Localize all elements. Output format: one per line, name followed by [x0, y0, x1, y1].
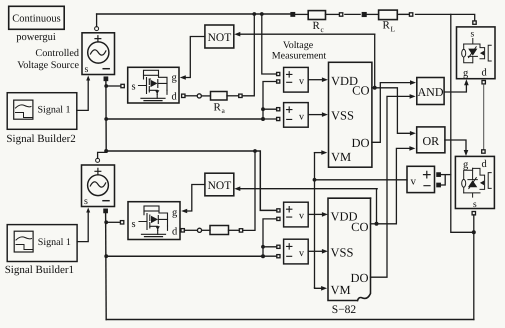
svg-text:v: v	[299, 112, 304, 123]
svg-text:v: v	[299, 211, 304, 222]
svg-text:Measurement: Measurement	[272, 51, 327, 62]
Q4 s port	[472, 212, 475, 215]
svg-text:Signal 1: Signal 1	[38, 237, 71, 248]
svg-text:d: d	[172, 227, 178, 238]
top rail wire	[97, 13, 291, 15]
voltage measurement V5 (mirrored)	[407, 166, 440, 192]
junction bus at lower bus branch	[104, 149, 108, 153]
svg-text:d: d	[172, 92, 178, 103]
MOSFET Q2 icon	[139, 206, 168, 237]
wire CO1 riser to NOT1	[374, 34, 376, 88]
controlled voltage source CVS1	[82, 33, 115, 75]
wire CVS1 minus bus down	[105, 81, 107, 152]
resistor Rc	[291, 11, 343, 20]
wire Q4 s down to node	[473, 215, 475, 232]
wire CO2 riser to NOT2	[376, 189, 379, 224]
svg-text:Signal Builder2: Signal Builder2	[6, 133, 75, 145]
wire VM1 input	[315, 152, 322, 154]
wire NOT1 input from CO1 loop	[240, 33, 375, 35]
svg-text:CO: CO	[351, 220, 368, 234]
NOT gate NOT1	[205, 25, 234, 48]
wire CO2 to OR input B	[377, 148, 410, 223]
Signal Builder2 block	[7, 93, 77, 130]
lower bus wire to NOT2 riser	[106, 151, 276, 210]
wire OR out to Q4 gate	[445, 140, 466, 151]
MOSFET Q4 block (bottom right)	[455, 156, 494, 210]
RL value label	[383, 20, 396, 34]
svg-text:s: s	[132, 219, 136, 230]
svg-text:VSS: VSS	[331, 246, 354, 260]
wire M3- chain to M4	[263, 219, 277, 256]
resistor R2 chain: Q2 d to lower bus riser	[181, 151, 255, 235]
node s junction	[472, 230, 476, 234]
svg-text:R: R	[313, 20, 321, 32]
svg-text:s: s	[473, 200, 477, 210]
svg-text:Signal Builder1: Signal Builder1	[5, 264, 74, 276]
CVS1 minus output port	[104, 77, 107, 80]
resistor RL	[362, 10, 413, 20]
Q3 d port	[482, 81, 485, 84]
wire stub to MOSFET1 s port	[106, 85, 120, 87]
voltage measurement M4	[277, 239, 308, 264]
AND gate	[417, 78, 444, 105]
wire M1- chain down to M2 ports	[263, 82, 277, 120]
CVS1 top port	[95, 27, 99, 31]
svg-text:R: R	[214, 102, 222, 114]
svg-text:Signal 1: Signal 1	[38, 105, 71, 116]
svg-text:L: L	[391, 25, 396, 34]
svg-text:NOT: NOT	[208, 180, 232, 192]
wire minus line to bus	[106, 118, 263, 120]
svg-text:d: d	[482, 159, 488, 170]
junction to M4- line	[104, 254, 108, 258]
wire jog to CVS2 top port	[98, 151, 107, 158]
svg-text:v: v	[411, 176, 417, 188]
svg-text:S−82: S−82	[332, 304, 357, 316]
junction bus to MOSFET1 s	[104, 84, 108, 88]
junction on rail at Ra riser	[252, 12, 256, 16]
svg-text:AND: AND	[418, 85, 444, 99]
wire CO1 to OR input A	[375, 88, 411, 134]
wire DO1 to AND input A	[372, 83, 411, 143]
bottom rail	[106, 319, 474, 321]
svg-text:CO: CO	[352, 84, 369, 98]
wire M4 out to VSS2	[308, 250, 322, 252]
S-function block U1	[329, 62, 372, 167]
svg-text:g: g	[172, 73, 178, 84]
svg-text:DO: DO	[350, 271, 368, 285]
wire M3 out to VDD2	[308, 213, 322, 215]
svg-text:VSS: VSS	[331, 109, 354, 123]
wire VM2 input	[315, 287, 322, 290]
wire M1 out to VDD1	[308, 79, 322, 81]
MOSFET Q3 icon	[462, 39, 492, 63]
wire CO2 node	[371, 223, 377, 225]
svg-text:s: s	[85, 64, 89, 75]
Controlled Voltage Source label	[17, 48, 79, 71]
wire NOT1 output to Q1 gate	[186, 37, 205, 78]
svg-text:Controlled: Controlled	[35, 48, 79, 59]
wire d-d link	[483, 84, 485, 150]
wire AND out to Q3 gate	[444, 85, 466, 92]
wire DO2 to AND input B	[371, 96, 411, 277]
wire V5 minus bracket	[440, 175, 445, 185]
svg-text:Continuous: Continuous	[12, 14, 60, 25]
svg-text:VM: VM	[331, 150, 351, 164]
MOSFET Q3 block (top right)	[457, 27, 496, 79]
wire SB2 out to CVS1 s input	[77, 81, 88, 111]
wire V5 out to VM riser	[315, 179, 408, 181]
svg-text:v: v	[299, 76, 304, 87]
CVS2 minus port	[104, 209, 107, 212]
Rc value label	[313, 20, 325, 34]
controlled voltage source CVS2	[82, 165, 115, 207]
wire NOT2 output to Q2 gate	[187, 185, 205, 212]
voltage measurement M2	[277, 103, 309, 128]
wire M1+ riser from rail	[262, 14, 277, 74]
junction bus to M2 minus line	[104, 117, 108, 121]
svg-text:g: g	[172, 208, 178, 219]
VM riser shared	[314, 153, 316, 288]
svg-text:Voltage: Voltage	[283, 40, 314, 51]
junction on rail at M1+ riser	[260, 12, 264, 16]
svg-text:g: g	[463, 160, 469, 171]
wire M2 out to VSS1	[308, 114, 322, 116]
wire SB1 out to CVS2 s input	[77, 213, 88, 242]
svg-text:d: d	[482, 68, 488, 79]
svg-text:s: s	[84, 196, 88, 207]
OR gate	[417, 127, 445, 153]
svg-text:VM: VM	[331, 283, 351, 297]
NOT gate NOT2	[205, 173, 234, 196]
MOSFET Q1 block	[128, 67, 179, 103]
Q4 d port	[482, 150, 485, 153]
riser from rail to s-node	[451, 14, 474, 232]
svg-text:R: R	[383, 20, 391, 32]
MOSFET Q4 icon	[462, 168, 492, 197]
svg-text:Voltage Source: Voltage Source	[17, 60, 79, 71]
S-function block U2 S-82	[328, 198, 371, 300]
powergui block	[9, 6, 64, 29]
Q3 s port	[473, 21, 476, 24]
wire CVS2 bus down	[105, 213, 108, 320]
Ra value label	[214, 102, 226, 116]
resistor Ra chain: Q1 d to rail	[182, 14, 255, 100]
voltage measurement M3	[277, 202, 308, 227]
wire CO1 node	[372, 87, 375, 89]
wire node to bottom rail	[473, 232, 475, 319]
junction to Q2 s	[104, 220, 108, 224]
wire M4- line to bus	[106, 255, 263, 257]
svg-text:DO: DO	[351, 136, 369, 150]
MOSFET Q2 block	[128, 202, 180, 240]
wire V5 plus to s-node riser	[440, 174, 451, 176]
Signal Builder1 block	[7, 225, 77, 262]
svg-text:v: v	[299, 248, 304, 259]
svg-text:s: s	[132, 82, 136, 93]
wire CVS1 top port to rail	[96, 14, 98, 27]
wire NOT2 input from CO2	[240, 188, 378, 190]
svg-text:OR: OR	[422, 134, 439, 148]
svg-text:NOT: NOT	[208, 32, 232, 44]
voltage measurement M1	[277, 67, 309, 92]
Voltage Measurement label	[272, 40, 327, 62]
svg-text:g: g	[463, 68, 469, 79]
MOSFET Q1 icon	[139, 70, 168, 100]
svg-text:powergui: powergui	[16, 32, 56, 43]
